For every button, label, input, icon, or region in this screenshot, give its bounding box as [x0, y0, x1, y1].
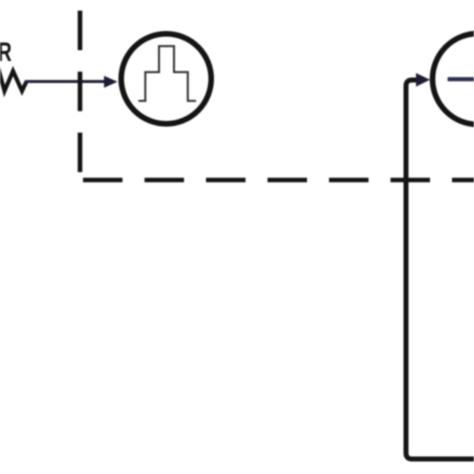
- svg-text:R: R: [0, 37, 12, 67]
